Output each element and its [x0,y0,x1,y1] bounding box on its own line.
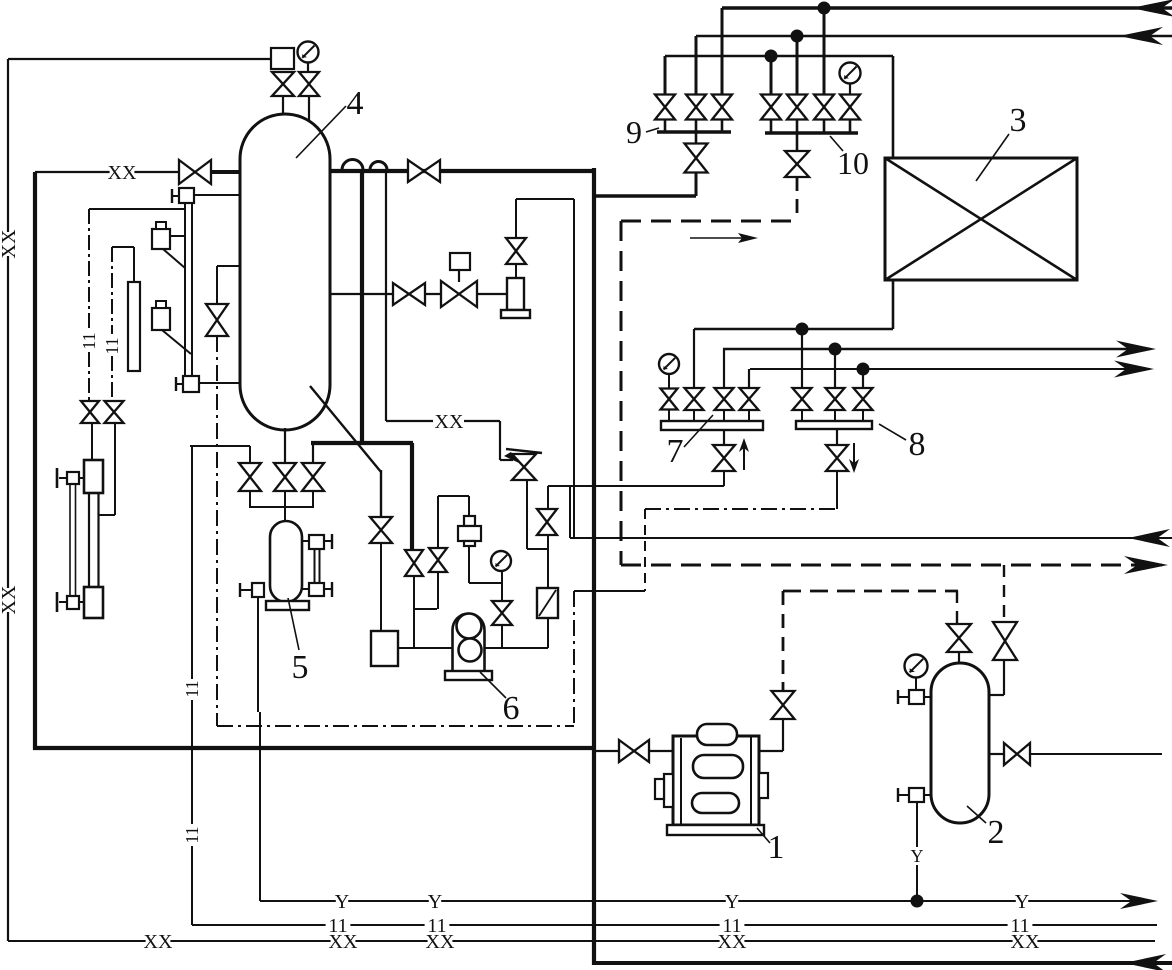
svg-text:Y: Y [725,891,739,913]
vessel 2 side valve [993,622,1017,660]
manifold 8 drain valve [826,445,848,471]
wire relief valve to vessel 4 [282,96,284,120]
vessel 2 gauge root fitting [909,690,924,704]
leader line for label 4 [296,106,346,158]
wire drain 10 dashed down [796,177,799,221]
svg-text:XX: XX [144,931,173,953]
wire branch down [216,266,218,304]
wire 11-line left branch (dash-dot) [88,209,90,330]
wire vent horizontal [516,198,574,200]
wire down to flow valve [547,486,549,509]
wire dashed riser x=645 [644,509,646,591]
wire return line y=538 [570,537,1172,539]
junction dot line A [818,2,831,15]
compressor top lobe [697,724,737,745]
arrow Y line outlet [1120,893,1158,909]
manifold 10 header [765,131,858,135]
wire purge header y=486 [548,485,724,487]
wire drain 9 down [695,173,698,196]
lower fitting cap [59,601,67,603]
label Y on drain [911,846,924,866]
top flange cap [172,195,179,197]
wire damper bottom [468,546,470,583]
wire ejector top [515,265,517,278]
wire outlet to edge [1030,753,1162,755]
wire regulator down [526,480,528,549]
wire line C to HX top [892,56,895,158]
svg-text:XX: XX [0,229,20,258]
wire corner down [499,421,501,460]
wire manifold left to 11-riser [190,445,250,447]
wire drain stub [240,589,252,591]
vessel 5 (pot) [270,521,302,602]
wire dashed y=591 compressor to vessel 2 [783,590,958,593]
wire dashed main y=565 [621,564,1162,567]
label XX bottom 3 [426,931,455,953]
wire 11 branch header [89,208,185,210]
DP column upper chamber [84,460,103,493]
vessel 5 gauge bottom cap [324,588,332,590]
label 11 bottom 4 [1008,915,1033,937]
wire gauge stem [915,678,917,690]
wire riser C to valve [664,56,667,95]
pump 6 upper rotor [457,614,482,639]
svg-text:Y: Y [1015,891,1029,913]
wire vessel 4 tap to branch [217,265,240,267]
label 11 left branch [79,330,99,352]
svg-text:11: 11 [102,337,122,354]
pump discharge line [484,647,548,649]
manifold 10 gauge [840,63,861,84]
label XX bottom 1 [144,931,173,953]
compressor inner walls [680,738,682,824]
manifold 10 drain valve [796,133,799,151]
safety relief valve [272,72,294,96]
vessel 4 (column) [240,114,330,430]
svg-text:2: 2 [988,814,1005,851]
manifold 10 valve 1 [761,95,781,120]
arrow supply line B [1119,27,1163,45]
level indicator strip [128,282,140,371]
boundary box top edge left part [35,171,180,173]
manifold 7 valve 3 [715,388,734,410]
svg-text:11: 11 [722,915,741,937]
vessel 2 outlet valve [1004,743,1030,765]
level transmitter upper [152,229,170,249]
svg-text:11: 11 [182,680,202,697]
manifold 8 valve 2 [826,388,845,410]
vessel 2 (separator) [931,663,989,823]
pump suction valve [405,550,423,576]
compressor 1 body [673,736,759,825]
svg-text:Y: Y [911,846,924,866]
wire valve down to suction line [413,576,415,648]
wire vessel 2 outlet [989,753,1005,755]
wire valve down [437,572,439,609]
wire drain 7 down [723,471,725,486]
wire y=591 to dashed riser [574,590,645,592]
wire branch dash-dot down [216,336,218,726]
gauge isolation valve [299,72,319,96]
bottoms valve right [302,463,324,491]
label XX on top-left line [108,162,137,184]
bottoms valve middle [274,463,296,491]
swan neck loop 1 [342,160,363,170]
pump suction line [398,647,453,649]
wire valve to compressor [782,719,784,751]
wire dashed y=221 [621,220,797,223]
wire drain 9 to box edge (thick) [594,194,696,198]
wire flow indicator to pump discharge [547,618,549,648]
manifold 9 drain valve [695,132,698,144]
svg-text:11: 11 [427,915,446,937]
manifold 10 valve 4 [840,95,860,120]
bottoms valve left [239,463,261,491]
manifold 7 gauge valve [661,389,678,410]
manifold 7 valve 4 [740,388,759,410]
leader line label 2 [967,806,986,823]
ejector body [507,278,524,310]
wire supply line A y=8 (thick) [722,6,1172,9]
label XX bottom 5 [1011,931,1040,953]
wire HX bottom down [892,280,895,329]
wire right valve to thick tee [312,443,314,463]
heat exchanger 3 [885,158,1077,280]
svg-text:6: 6 [503,690,520,727]
gauge root valve [492,601,512,625]
wire jog to column tube [99,514,115,516]
label XX bottom 4 [718,931,747,953]
leader line label 10 [830,136,843,151]
svg-text:4: 4 [347,85,364,122]
self-acting pressure regulator [512,454,536,480]
manifold 7 gauge [659,354,679,374]
manifold 8 header bar [796,421,872,429]
svg-text:XX: XX [0,585,20,614]
boundary box bottom edge [33,746,596,750]
wire riser valve 802 [801,329,803,389]
label 11 riser upper [182,678,202,700]
arrow bottom return line [1124,954,1166,970]
wire riser valve 863 [862,369,864,389]
label XX on regulator line [435,411,464,433]
pump 6 casing [453,614,485,672]
level gauge bottom flange [183,376,199,392]
wire strip top to branch [133,247,135,282]
svg-text:5: 5 [292,649,309,686]
vessel 5 level gauge bottom flange [309,583,324,596]
letdown block valve [393,283,425,305]
wire control valve to ejector [477,293,507,295]
wire riser A to valve [721,8,724,95]
leader line for label 6 [480,672,506,698]
flow indicator (rotameter) [537,588,558,618]
manifold 9 valve 1 [655,95,675,120]
pipe from loop 2 descending [385,170,387,421]
wire gauge to valve [307,62,309,73]
svg-text:3: 3 [1010,102,1027,139]
XX block valve left of vessel 4 [179,160,211,184]
pressure gauge PG on vessel 4 [298,42,319,63]
wire y=329 HX to manifold [694,328,893,331]
wire gauge to valve 4 [849,83,851,95]
arrow line y=349 outlet [1116,341,1156,358]
label 11 bottom 3 [720,915,745,937]
wire suction valve to compressor [649,750,673,752]
wire dot C down [770,56,773,95]
wire manifold to vessel 5 [284,491,286,521]
junction dot line B [791,30,804,43]
wire manifold collect right [312,491,314,508]
wire gauge stem [668,374,670,389]
upper fitting cap [59,477,67,479]
manifold 8 drain stem [836,429,838,445]
svg-text:XX: XX [435,411,464,433]
wire valve to vessel 2 [958,652,960,664]
wire left valve top [249,446,251,463]
wire slant pipe to tank valve [380,470,382,517]
wire riser valve 749 [748,369,750,389]
label XX (left line upper) [0,229,20,258]
junction dot line C [765,50,778,63]
drain fitting cap [898,794,909,796]
leader line label 7 [684,415,713,447]
wire 11-riser x=192 [191,446,193,679]
wire damper branch top [438,495,469,497]
junction dot y=369 [857,363,870,376]
damper branch valve [429,548,447,572]
gauge fitting cap [898,696,909,698]
control valve actuator [450,253,470,270]
svg-text:1: 1 [768,829,785,866]
compressor bottom lobe [692,793,739,813]
junction dot y=329 [796,323,809,336]
wire vessel 4 bottom outlet [284,428,286,463]
wire damper to gauge stem [469,582,502,584]
wire strip branch horizontal [112,246,134,248]
wire valve to tank [380,543,382,631]
manifold 8 valve 3 [854,388,873,410]
swan neck loop 2 [370,162,387,171]
wire loop2 pipe to XX regulator line [386,420,433,422]
compressor left flange [664,774,673,807]
DP column lower chamber [84,587,103,618]
pulsation damper body [458,526,481,541]
leader line label 9 [646,128,659,132]
vessel 2 pressure gauge [905,655,928,678]
pipe from loop 1 descending (thick) [360,170,364,445]
wire damper stem [468,496,470,516]
wire 11 bottom line [192,924,1157,926]
safety relief valve body (box) [271,48,294,69]
svg-text:8: 8 [909,426,926,463]
wire vessel 2 drain down to Y line [916,802,918,847]
ejector base [501,310,530,318]
wire branch dash-dot up x=574 [573,591,575,726]
svg-text:Y: Y [335,891,349,913]
svg-text:Y: Y [428,891,442,913]
wire XX label to corner [464,420,500,422]
pulsation damper neck [464,516,475,526]
wire dashed drop to vessel 2 inlet valve [956,591,958,625]
wire gauge stubs to vessel 5 [302,540,309,542]
wire gauge valve to discharge line [501,625,503,648]
label Y 1 [335,891,349,913]
level transmitter lower [152,308,170,330]
wire valve to control valve [425,293,442,295]
seal tank [371,631,398,666]
wire bottom flange to vessel 4 [199,382,240,384]
boundary box right edge [592,168,596,965]
bottom flange cap [176,383,183,385]
slanted tap lower [162,330,191,354]
wire supply line B y=36 [696,35,1172,38]
arrow supply line A [1131,0,1172,17]
slanted tap upper [163,249,185,268]
wire ejector vent up [515,199,517,238]
wire dashed drop to compressor valve [782,591,785,682]
pulsation damper lower neck [464,541,475,546]
branch valve [206,304,228,336]
manifold 8 valve 1 [793,388,812,410]
arrow return line y=538 [1128,529,1170,547]
wire dot A down to manifold 10 valve [823,8,826,95]
leader line label 8 [879,424,906,440]
wire riser B to valve [695,36,698,95]
manifold 7 valve stubs [668,410,670,421]
manifold 7 drain stem [723,430,725,445]
branch valve left [81,401,99,423]
tank inlet valve [370,517,392,543]
svg-text:11: 11 [182,826,202,843]
wire riser valve 835 [834,349,836,389]
thick pipe elbow down x=413 [410,443,414,551]
DP column capillaries [69,484,71,596]
manifold 8 valve stubs [801,410,803,421]
wire valve to vessel 4 (thick) [211,170,240,174]
compressor suction valve [619,740,649,762]
label Y 4 [1015,891,1029,913]
wire transmitter tap [170,235,185,237]
vessel 5 level gauge top flange [309,535,324,549]
vessel 5 skid [266,601,309,610]
wire 11-line right branch (dash-dot) [111,247,113,334]
manifold 10 valve 3 [814,95,834,120]
label 11 bottom 2 [425,915,450,937]
drain stub end cap [239,583,241,597]
compressor right flange [759,773,768,798]
wire vessel 4 right tap [330,293,393,295]
manifold 9 valve 2 [686,95,706,120]
wire XX-return left vertical [7,59,9,232]
DP column lower side fitting [67,596,79,609]
leader line for label 5 [288,598,299,650]
down arrow beside drain 8 [853,443,855,463]
pump 6 lower rotor [459,639,482,662]
branch valve right [105,401,124,423]
wire y=369 line [750,368,1150,370]
svg-text:XX: XX [108,162,137,184]
control valve [441,281,477,307]
vessel 2 inlet valve [947,624,971,652]
vessel 5 level gauge tubes [314,549,316,583]
wire side valve elbow [1003,660,1005,695]
svg-text:11: 11 [79,332,99,349]
label 11 bottom 1 [326,915,351,937]
slanted pipe from vessel 4 bottom [310,386,381,472]
arrow dashed main y=565 [1124,556,1168,574]
wire riser valve 694 [693,329,695,389]
wire right valve down [114,423,116,515]
pump 6 base [445,671,492,680]
svg-text:9: 9 [626,114,642,150]
wire drain 8 down to y=509 [836,471,838,509]
manifold 7 drain valve [713,445,735,471]
flow direction arrow [690,237,748,239]
wire into regulator [500,459,513,461]
arrow line y=369 outlet [1114,361,1154,378]
wire bottom return line (thick) [596,961,1172,965]
wire fitting to vessel 2 lower [924,794,931,796]
wire top flange to vessel 4 [194,194,240,196]
wire branch dash-dot horizontal y=726 [217,725,574,727]
thick tee header under vessel [311,441,413,445]
label XX bottom 2 [329,931,358,953]
compressor base [667,825,764,835]
wire manifold collect bar [250,506,313,508]
DP column upper side fitting [67,472,79,484]
wire dash-dot y=509 to manifold 8 [645,508,837,510]
label Y 2 [428,891,442,913]
svg-text:11: 11 [1010,915,1029,937]
vessel 5 drain fitting [252,583,264,597]
junction dot y=349 [829,343,842,356]
leader line label 1 [757,828,770,843]
vessel 5 gauge top cap [324,540,332,542]
wire top-left horizontal to safety valve [8,58,272,60]
DP column tubes [88,493,90,587]
wire valve to vessel 4 top [308,96,310,122]
wire supply line C y=56 [665,55,893,58]
wire XX bottom line [8,940,1155,942]
wire compressor suction from box [594,750,620,752]
junction dot on Y line [911,895,924,908]
wire link y486 to y538 [569,487,571,538]
manifold 9 valve 3 [712,95,732,120]
wire fitting to vessel 2 [924,696,931,698]
overhead line block valve [408,160,440,182]
label Y 3 [725,891,739,913]
compressor discharge valve [772,691,795,719]
wire manifold collect left [249,491,251,508]
svg-text:11: 11 [328,915,347,937]
wire gauge stem [501,571,503,601]
label XX (left line lower) [0,585,20,614]
level gauge tubes [184,203,186,376]
wire y=349 line [723,348,1150,350]
control valve stem [458,270,460,282]
discharge pressure gauge [491,551,511,571]
manifold 9 header [657,130,731,134]
leader line label 3 [976,134,1009,181]
main overhead line vessel 4 to right (thick) [330,169,594,173]
wire riser valve 724 [723,349,725,389]
manifold 7 header bar [661,421,763,430]
wire dashed branch x=1004 [1003,565,1005,622]
compressor middle lobe [693,755,743,778]
up arrow beside drain 7 [743,448,745,470]
manifold 7 valve 2 [685,388,704,410]
